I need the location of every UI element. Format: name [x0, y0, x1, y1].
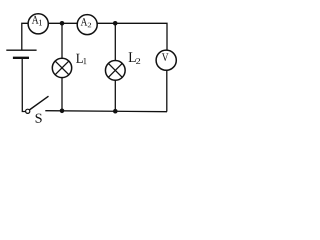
ammeter A2: [77, 15, 97, 35]
junction node: top rail / L2 branch: [113, 21, 118, 26]
wire: L1 branch lower stem: [61, 77, 63, 111]
battery B1 positive plate (long): [6, 49, 36, 51]
junction node: bottom rail / L1 branch: [60, 109, 65, 114]
junction node: top rail / L1 branch: [60, 21, 65, 26]
wire: L2 branch upper stem: [114, 23, 116, 61]
switch S pivot (open circle): [26, 109, 30, 113]
lamp L2 (circle with X): [105, 61, 125, 81]
wire: voltmeter down to bottom-right corner: [166, 71, 168, 112]
battery B1 negative plate (short thick): [13, 57, 29, 59]
label S: [36, 114, 42, 123]
wire: L1 branch upper stem: [61, 23, 63, 58]
voltmeter V: [156, 50, 176, 70]
wire: A1 to A2: [49, 22, 78, 24]
label L2: [129, 52, 141, 64]
switch S blade (open): [29, 96, 48, 110]
junction node: bottom rail / L2 branch: [113, 109, 118, 114]
wire: battery negative down to switch pivot: [22, 58, 25, 112]
wire: L2 branch lower stem: [114, 80, 116, 112]
wire: bottom rail from switch to bottom-right corner: [45, 111, 167, 112]
wire: A2 to top-right corner and down to voltmeter: [97, 23, 167, 50]
label L1: [76, 54, 86, 64]
wire: battery positive up and right to ammeter A1: [22, 23, 28, 50]
ammeter A1: [28, 14, 48, 34]
lamp L1 (circle with X): [52, 58, 71, 77]
